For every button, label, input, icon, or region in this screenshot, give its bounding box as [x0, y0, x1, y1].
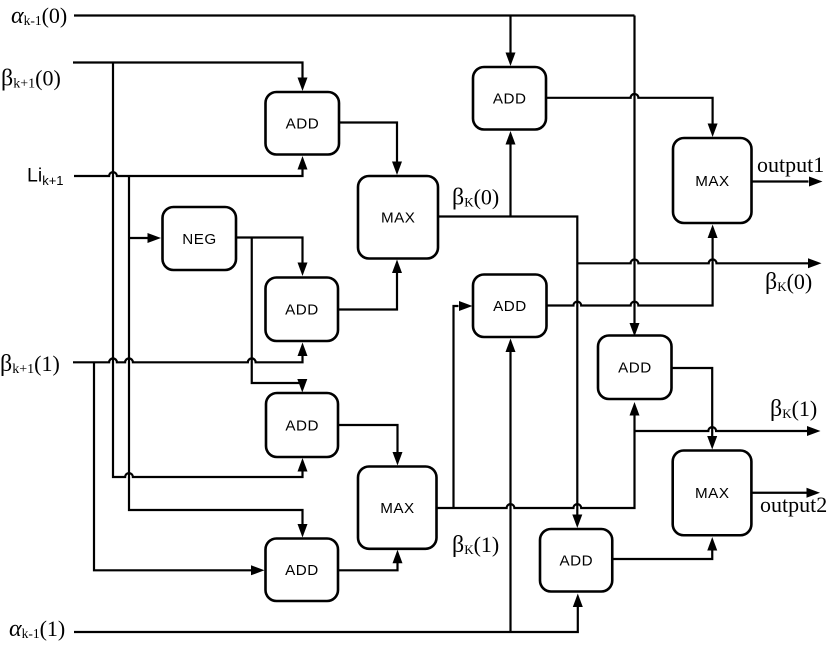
wire ADD4 output to MAX2 bottom: [338, 550, 403, 571]
block NEG (negate Li): [163, 207, 237, 270]
wire output1 arrow: [752, 177, 823, 187]
block ADD6 (alpha1 + betaK1): [473, 275, 547, 338]
wire ADD6 output to MAX3 bottom: [547, 225, 718, 306]
svg-text:MAX: MAX: [381, 210, 415, 227]
svg-text:ADD: ADD: [618, 360, 652, 377]
block ADD3 (-Li + beta_k+1(0)): [266, 393, 338, 457]
wire betaK0 tap up to ADD5 bottom: [506, 131, 516, 217]
wire output2 arrow: [751, 488, 820, 498]
wire NEG output to ADD2 top: [236, 238, 308, 277]
svg-text:ADD: ADD: [493, 298, 527, 315]
svg-text:MAX: MAX: [380, 500, 414, 517]
wire MAX2 output betaK(1) up to ADD7 bottom: [437, 402, 640, 508]
svg-text:output2: output2: [760, 492, 827, 517]
block ADD4 (Li + beta_k+1(1)): [266, 539, 339, 602]
wire ADD6 left input from betaK1: [454, 301, 473, 508]
wire alpha_k-1(1) bus to ADD8 bottom: [74, 594, 583, 633]
wire beta_k+1(0) to ADD1 top: [73, 63, 308, 92]
block MAX1 (produces betaK(0)): [358, 176, 438, 259]
wire alpha0 drop to ADD5 top: [506, 16, 516, 67]
wire ADD7 output to MAX4 top: [672, 368, 718, 450]
block MAX4 (produces output2): [673, 451, 752, 536]
wire ADD5 output to MAX3 top: [546, 94, 718, 137]
svg-text:ADD: ADD: [285, 302, 319, 319]
svg-text:MAX: MAX: [695, 485, 729, 502]
svg-text:ADD: ADD: [560, 553, 594, 570]
svg-text:ADD: ADD: [286, 116, 320, 133]
svg-text:βK(1): βK(1): [452, 532, 499, 558]
wire ADD1 output to MAX1 top: [339, 123, 402, 176]
svg-text:ADD: ADD: [493, 91, 527, 108]
svg-text:ADD: ADD: [285, 417, 319, 434]
wire NEG branch to ADD3 top: [252, 238, 308, 393]
wire ADD8 output to MAX4 bottom: [612, 537, 717, 559]
wire alpha1 up to ADD6 bottom: [506, 339, 516, 633]
svg-text:MAX: MAX: [695, 173, 729, 190]
wire betaK(1) output line: [635, 426, 821, 436]
wire betaK(0) output line: [577, 258, 821, 268]
wire alpha0 drop to ADD7 top: [630, 16, 640, 337]
block ADD2 (-Li + beta_k+1(1)): [266, 278, 339, 342]
svg-text:βK(1): βK(1): [770, 396, 817, 422]
svg-text:NEG: NEG: [182, 231, 216, 248]
block MAX2 (produces betaK(1)): [358, 467, 437, 549]
wire Li tap to NEG input: [129, 233, 161, 243]
wire beta1 branch to ADD4 left: [94, 362, 265, 575]
svg-text:βK(0): βK(0): [452, 185, 499, 211]
block ADD7 (alpha0 + betaK1): [598, 336, 672, 400]
svg-text:output1: output1: [757, 152, 824, 177]
wire Li_k+1 to ADD1 bottom: [74, 156, 308, 176]
svg-text:ADD: ADD: [285, 562, 319, 579]
wire beta_k+1(0) branch to ADD3 bottom: [113, 63, 308, 478]
wire ADD2 output to MAX1 bottom: [338, 260, 402, 310]
wire Li branch down to ADD4 top: [129, 176, 308, 538]
wire ADD3 output to MAX2 top: [338, 425, 403, 466]
wire alpha_k-1(0) bus: [74, 14, 635, 16]
wire beta_k+1(1) to ADD2 bottom: [73, 343, 308, 363]
block ADD8 (alpha1 + betaK0): [540, 529, 612, 592]
wire MAX1 output betaK(0) down to ADD8 top: [438, 217, 582, 529]
svg-text:βK(0): βK(0): [765, 269, 812, 295]
block ADD1 (beta_k+1(0) + Li): [266, 92, 340, 155]
block ADD5 (alpha0 + betaK0): [473, 67, 546, 130]
block MAX3 (produces output1): [673, 138, 752, 223]
